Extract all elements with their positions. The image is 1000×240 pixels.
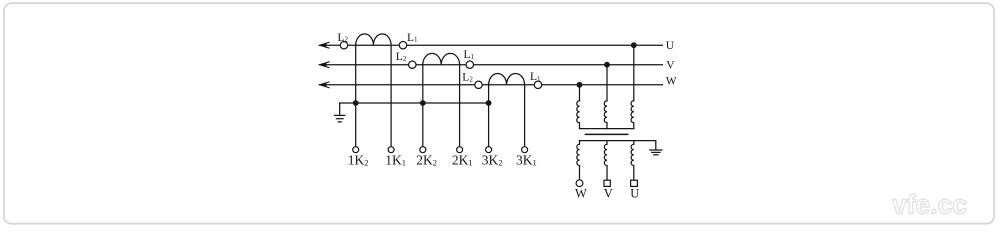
wire phase W xyxy=(320,84,663,86)
terminal U secondary xyxy=(631,180,638,186)
terminal L2 of TA2 xyxy=(409,61,416,68)
arrow phase U xyxy=(320,42,329,48)
wire 3K1 lead xyxy=(524,85,526,147)
junction dot phase W - PT xyxy=(577,82,583,88)
wire PT U drop xyxy=(633,45,635,100)
terminal V secondary xyxy=(604,180,610,186)
arrow phase V xyxy=(320,62,329,68)
terminal 3K1 xyxy=(522,147,528,153)
junction dot 3K2-bus xyxy=(486,100,492,106)
wire PT V drop xyxy=(606,65,608,101)
terminal 2K2 xyxy=(420,147,426,153)
PT primary winding W xyxy=(577,101,580,129)
PT secondary winding V xyxy=(604,141,607,180)
terminal L2 of TA1 xyxy=(340,42,347,49)
svg-text:V: V xyxy=(666,59,675,71)
svg-text:vfe.cc: vfe.cc xyxy=(892,190,967,220)
ground right xyxy=(650,150,662,155)
wire 2K1 lead xyxy=(459,65,461,147)
wire earthing bus xyxy=(340,102,489,104)
svg-text:W: W xyxy=(666,76,677,88)
wire phase V xyxy=(320,64,663,66)
CT TA3 primary winding xyxy=(489,74,525,85)
arrow phase W xyxy=(320,82,329,88)
wire 1K2 lead xyxy=(355,45,357,147)
terminal 2K1 xyxy=(457,147,463,153)
wire 1K1 lead xyxy=(390,45,392,147)
CT TA1 primary winding xyxy=(356,34,391,45)
CT TA2 primary winding xyxy=(423,53,460,64)
junction dot 2K2-bus xyxy=(420,100,426,106)
terminal 3K2 xyxy=(486,147,492,153)
PT primary winding V xyxy=(604,101,607,129)
terminal L1 of TA2 xyxy=(466,61,473,68)
svg-text:W: W xyxy=(575,187,587,201)
PT core xyxy=(585,133,627,135)
terminal L2 of TA3 xyxy=(475,81,482,88)
svg-text:V: V xyxy=(604,187,613,201)
junction dot phase U - PT xyxy=(631,42,637,48)
terminal L1 of TA1 xyxy=(399,42,406,49)
junction dot phase V - PT xyxy=(604,62,610,68)
terminal L1 of TA3 xyxy=(534,81,541,88)
svg-text:U: U xyxy=(630,187,639,201)
terminal 1K1 xyxy=(388,147,394,153)
wire PT secondary bus xyxy=(580,141,656,150)
ground left xyxy=(335,103,345,122)
wire PT W drop xyxy=(579,85,581,101)
wire 2K2 lead xyxy=(422,65,424,147)
PT secondary winding W xyxy=(577,141,580,180)
PT secondary winding U xyxy=(631,141,634,180)
junction dot 1K2-bus xyxy=(353,100,359,106)
PT primary winding U xyxy=(631,101,634,129)
wire phase U xyxy=(320,44,663,46)
svg-text:U: U xyxy=(666,40,675,52)
wire PT primary star bus xyxy=(580,128,634,130)
terminal W secondary xyxy=(576,180,583,187)
wire 3K2 lead xyxy=(488,85,490,147)
terminal 1K2 xyxy=(353,147,359,153)
